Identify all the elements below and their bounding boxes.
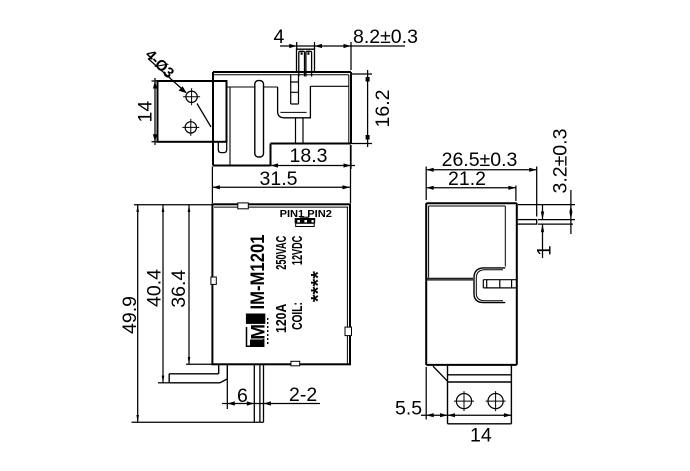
front bracket foot [169,364,227,383]
mounting hole circle 1 [183,88,200,105]
svg-text:COIL:: COIL: [289,302,306,330]
top view body outline [213,72,351,166]
svg-text:M: M [249,324,270,340]
svg-text:49.9: 49.9 [119,296,141,334]
dimension 18.3 [267,145,355,169]
terminal block on top [297,49,315,76]
svg-text:2-2: 2-2 [289,384,317,406]
svg-text:18.3: 18.3 [290,145,328,167]
leader 4-Ø3 [148,59,211,128]
dimension 21.2 [426,186,516,202]
svg-text:250VAC: 250VAC [273,236,290,270]
svg-text:IM-M1201: IM-M1201 [248,234,269,309]
dimension 26.5±0.3 [426,167,537,217]
svg-text:8.2±0.3: 8.2±0.3 [353,26,418,48]
svg-text:120A: 120A [273,304,290,333]
dimension 49.9 [132,205,264,423]
dimension 6 and 2-2 [222,379,320,409]
front pins [254,364,263,422]
dimension 5.5 [421,367,511,420]
side screw 2 [486,391,506,411]
manufacturer logo [246,314,270,347]
top view mounting bracket plate [158,81,227,153]
svg-text:1: 1 [535,245,556,256]
dimension 4 (terminal width) [280,42,405,70]
dimension 40.4 [158,205,169,383]
svg-text:14: 14 [135,101,157,123]
svg-text:14: 14 [470,425,492,447]
side bottom block [433,365,511,424]
pin connector block [295,218,316,227]
svg-text:****: **** [309,270,330,302]
svg-text:12VDC: 12VDC [289,236,306,265]
top view U channel [278,86,311,118]
mounting hole circle 2 [182,119,199,136]
svg-text:36.4: 36.4 [168,270,190,308]
dimension 3.2±0.3 [518,190,575,234]
svg-text:5.5: 5.5 [395,398,422,420]
side pin [517,220,537,225]
front bottom notch [291,361,300,366]
dimension 31.5 [212,145,350,203]
dimension 14 (side) [448,413,512,417]
dimension 14 (bracket) [152,78,158,145]
svg-text:6: 6 [237,385,248,407]
front top notch [238,203,249,209]
svg-text:16.2: 16.2 [372,90,394,128]
dimension 36.4 [186,205,212,365]
top view interior ledge lines [227,86,349,165]
side division line [426,278,473,280]
top view vertical slot [255,81,264,157]
side view body outline [426,203,517,365]
side C clamp [474,268,505,303]
svg-text:4: 4 [274,26,285,48]
svg-text:40.4: 40.4 [144,269,166,307]
svg-text:21.2: 21.2 [448,168,486,190]
dimension 16.2 [351,70,372,147]
side screw 1 [454,391,474,411]
front left tab [211,277,216,284]
pin label underscore [300,216,309,218]
svg-text:3.2±0.3: 3.2±0.3 [550,129,572,194]
side terminal slot strip [483,280,517,288]
dimension 1 [541,205,544,258]
front right tab [345,327,352,336]
svg-text:31.5: 31.5 [260,168,298,190]
front view body outline [212,204,350,364]
top view center pin strip [291,75,303,144]
